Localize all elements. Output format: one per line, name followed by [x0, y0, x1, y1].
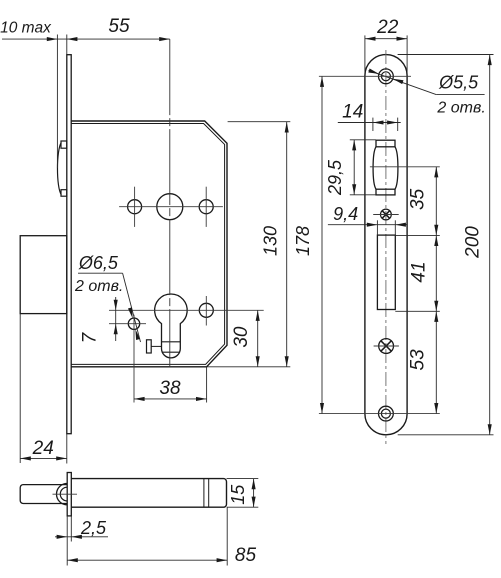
upper handle hole left — [128, 200, 142, 214]
latch window top cap — [376, 140, 395, 147]
small hole horizontal centerline — [109, 323, 146, 325]
dimension 7 — [115, 297, 117, 341]
plate vertical centerline — [385, 50, 387, 444]
svg-text:Ø6,5: Ø6,5 — [78, 253, 119, 273]
svg-text:9,4: 9,4 — [333, 204, 358, 224]
cross screw hole — [381, 209, 392, 220]
latch bolt (bottom view) — [20, 485, 67, 504]
cross screw slots — [382, 211, 390, 219]
latch barrel (side view) top lug — [61, 141, 67, 148]
dimension 22 — [365, 38, 407, 40]
svg-text:14: 14 — [342, 102, 363, 123]
dimension 30 — [257, 310, 259, 367]
case end seam 1 — [203, 479, 205, 508]
top screw hole inner — [381, 72, 390, 81]
O5.5 leader — [369, 70, 437, 94]
deadbolt slot — [377, 235, 395, 309]
phillips screw centerline — [374, 345, 399, 347]
slot bottom extension — [395, 310, 440, 312]
O6.5 leader — [78, 272, 123, 274]
cylinder hole chord 1 — [162, 341, 181, 343]
top hole centerline / 178 extension — [319, 75, 411, 77]
svg-text:29,5: 29,5 — [325, 159, 345, 196]
latch barrel left arc — [373, 147, 376, 189]
bottom screw hole inner — [381, 409, 390, 418]
deadbolt thrown (front view) — [20, 236, 67, 314]
svg-text:85: 85 — [235, 545, 257, 566]
dimension 15 — [253, 479, 255, 508]
cylinder hole chord 2 — [162, 351, 179, 353]
right hole vertical centerline — [205, 187, 207, 227]
main vertical centerline — [169, 39, 171, 366]
svg-text:15: 15 — [228, 484, 248, 505]
left hole vertical centerline — [134, 187, 136, 227]
cylinder fixing pin — [147, 340, 152, 353]
cylinder horizontal centerline / 30 extension — [109, 309, 264, 311]
svg-text:130: 130 — [261, 226, 281, 256]
dimension 14 — [338, 122, 401, 124]
svg-text:2,5: 2,5 — [80, 518, 107, 538]
latch horizontal centerline / 35 extension — [370, 166, 440, 168]
case top extension — [228, 121, 291, 123]
bolt centerline — [53, 493, 78, 495]
upper spindle hole center — [157, 194, 183, 220]
phillips screw — [379, 339, 394, 354]
bottom hole centerline / 178+53 extension — [319, 413, 440, 415]
latch collar inner arc — [60, 487, 67, 501]
lock case inner outline — [71, 124, 224, 365]
svg-text:Ø5,5: Ø5,5 — [438, 73, 479, 93]
svg-text:200: 200 — [463, 226, 484, 259]
case bottom extension — [207, 366, 291, 368]
lock case outer outline — [71, 121, 227, 367]
svg-text:2 отв.: 2 отв. — [436, 100, 485, 117]
top screw hole outer — [379, 69, 394, 84]
dimension 38 — [134, 398, 207, 400]
pin link line — [151, 345, 161, 347]
dimension chain 35/41/53 line — [435, 167, 437, 414]
lower-right hole vertical centerline — [205, 296, 207, 326]
dimension 130 — [286, 122, 288, 367]
latch collar outer arc — [56, 483, 67, 504]
svg-text:53: 53 — [408, 349, 429, 371]
svg-text:30: 30 — [231, 326, 252, 348]
latch window bottom cap — [376, 189, 395, 195]
dimension 24 — [20, 457, 67, 459]
dimension 85 — [67, 559, 227, 561]
extension line faceplate front — [66, 35, 68, 55]
svg-text:38: 38 — [159, 378, 181, 399]
faceplate (bottom view) — [67, 473, 71, 516]
svg-text:7: 7 — [80, 331, 101, 343]
euro cylinder hole — [155, 294, 188, 358]
svg-text:55: 55 — [108, 16, 130, 37]
svg-text:22: 22 — [376, 17, 399, 38]
slot top extension — [395, 234, 440, 236]
phillips screw cross — [381, 341, 391, 351]
svg-text:24: 24 — [32, 438, 54, 459]
dimension 10 max / 55 line — [2, 38, 170, 40]
latch barrel (side view) bottom lug — [61, 190, 67, 197]
dimension 178 — [321, 76, 323, 413]
latch barrel bulge arc — [57, 143, 61, 195]
dimension 9,4 — [328, 224, 407, 226]
dimension 29,5 — [353, 140, 355, 195]
lower-right small hole — [199, 303, 213, 317]
extension line trigger bulge — [56, 35, 58, 169]
svg-text:35: 35 — [408, 188, 429, 210]
lock case (bottom view) — [71, 479, 226, 508]
dimension 2,5 — [55, 536, 108, 538]
svg-text:178: 178 — [293, 226, 313, 256]
small hole vertical centerline / 38 extension — [133, 315, 135, 403]
upper handle hole right — [199, 200, 213, 214]
svg-text:41: 41 — [409, 261, 430, 282]
faceplate plate outline — [365, 55, 407, 435]
latch barrel right arc — [395, 147, 398, 189]
case end seam 2 — [208, 479, 210, 508]
svg-text:10 max: 10 max — [0, 20, 52, 37]
lower small hole (O 6.5) — [128, 318, 139, 329]
upper holes horizontal centerline — [119, 206, 223, 208]
dimension 200 — [489, 55, 491, 435]
faceplate edge-on — [67, 55, 71, 434]
cross screw centerline — [373, 214, 399, 216]
bottom screw hole outer — [379, 406, 394, 421]
svg-text:2 отв.: 2 отв. — [74, 278, 123, 295]
